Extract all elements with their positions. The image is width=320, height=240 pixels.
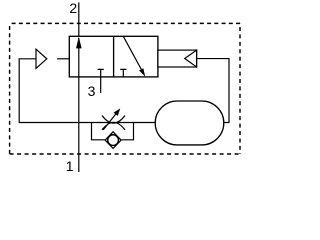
valve left-box blocked port 3: [98, 69, 104, 77]
valve left-box flow path 1 to 2: [78, 38, 80, 77]
valve right-box exhaust path 2 to 3: [123, 36, 143, 72]
svg-text:3: 3: [88, 83, 96, 99]
reservoir: [155, 101, 224, 145]
pilot actuator box: [158, 50, 197, 67]
check valve diamond: [105, 132, 121, 149]
valve U1 body: [69, 36, 158, 77]
flow control bypass wires: [92, 123, 106, 140]
wire port2 line above valve: [78, 2, 80, 36]
wire pilot to reservoir: [197, 59, 229, 123]
svg-text:2: 2: [69, 0, 77, 16]
wire port1 line below valve: [78, 77, 80, 172]
wire port3 stub: [100, 77, 102, 93]
throttle lower arc: [102, 122, 125, 130]
wire triangle to valve: [57, 58, 69, 60]
throttle adjust arrow: [103, 112, 117, 130]
wire pilot loop left: [19, 59, 155, 123]
valve right-box blocked port 1: [120, 69, 126, 77]
throttle upper arc: [102, 116, 125, 124]
valve box divider: [113, 36, 115, 77]
check valve ball: [108, 135, 119, 146]
check valve pilot-in triangle: [36, 49, 47, 68]
svg-text:1: 1: [66, 158, 74, 174]
pilot actuator triangle: [185, 50, 197, 67]
enclosure dashed box: [10, 23, 240, 154]
